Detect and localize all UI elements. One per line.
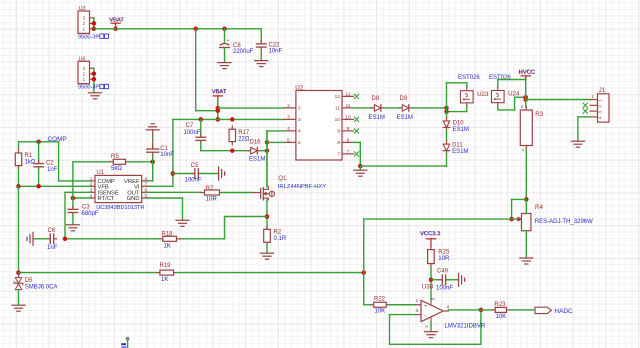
svg-text:5kΩ: 5kΩ (111, 166, 122, 172)
svg-text:100nF: 100nF (436, 286, 453, 292)
svg-text:10: 10 (335, 117, 341, 123)
svg-text:EST026: EST026 (458, 75, 480, 81)
svg-text:0.1R: 0.1R (274, 236, 287, 242)
svg-text:+: + (227, 38, 230, 44)
svg-text:3: 3 (83, 66, 86, 71)
svg-text:3: 3 (83, 16, 86, 21)
svg-text:R22: R22 (374, 297, 386, 303)
svg-text:1: 1 (416, 298, 419, 304)
svg-text:HVCC: HVCC (519, 70, 535, 76)
svg-text:C2: C2 (46, 160, 54, 166)
svg-text:R4: R4 (535, 204, 543, 211)
svg-text:R5: R5 (111, 154, 119, 160)
svg-text:4: 4 (298, 129, 301, 135)
svg-text:SMBJ6.0CA: SMBJ6.0CA (25, 284, 58, 290)
svg-text:100nF: 100nF (185, 177, 202, 183)
svg-text:R17: R17 (238, 130, 250, 136)
svg-text:12: 12 (335, 94, 341, 100)
svg-text:ES1M: ES1M (249, 157, 265, 163)
svg-text:Q1: Q1 (278, 175, 287, 182)
svg-text:C8: C8 (233, 43, 241, 49)
svg-text:1nF: 1nF (47, 245, 58, 251)
svg-text:10R: 10R (206, 197, 218, 203)
svg-text:5: 5 (287, 137, 290, 143)
svg-text:R7: R7 (206, 186, 214, 192)
svg-text:ES1M: ES1M (453, 127, 469, 133)
svg-text:D10: D10 (453, 121, 465, 127)
svg-text:RES-ADJ-TH_3296W: RES-ADJ-TH_3296W (535, 219, 593, 225)
svg-text:2: 2 (287, 103, 290, 109)
svg-text:R25: R25 (438, 249, 450, 255)
svg-text:U38: U38 (422, 283, 434, 290)
svg-text:100nF: 100nF (184, 130, 201, 136)
svg-text:11: 11 (335, 106, 340, 112)
svg-text:12: 12 (345, 91, 351, 97)
svg-text:U1: U1 (96, 170, 104, 176)
svg-text:2200uF: 2200uF (233, 49, 254, 55)
svg-text:D11: D11 (452, 143, 463, 149)
svg-text:9: 9 (337, 129, 340, 135)
svg-text:22Ω: 22Ω (238, 136, 250, 142)
svg-text:11: 11 (346, 103, 351, 109)
svg-text:C3: C3 (82, 204, 90, 210)
svg-text:10: 10 (345, 114, 351, 120)
svg-text:1K: 1K (164, 244, 171, 250)
svg-text:VBAT: VBAT (109, 17, 124, 23)
svg-text:UC3843BD1013TR: UC3843BD1013TR (96, 205, 144, 211)
svg-text:1K: 1K (161, 277, 168, 283)
svg-text:R19: R19 (160, 263, 172, 269)
svg-text:C5: C5 (191, 163, 199, 169)
svg-text:HADC: HADC (555, 308, 573, 315)
svg-text:C6: C6 (48, 228, 56, 234)
svg-text:+: + (424, 303, 427, 309)
svg-text:9: 9 (347, 126, 350, 132)
svg-text:7: 7 (144, 182, 147, 188)
svg-text:4: 4 (287, 126, 290, 132)
svg-text:10nF: 10nF (269, 48, 283, 54)
svg-text:D16: D16 (250, 139, 262, 145)
svg-text:R3: R3 (535, 111, 543, 118)
svg-text:1: 1 (83, 27, 86, 32)
svg-text:U23: U23 (477, 91, 489, 98)
svg-text:D9: D9 (400, 96, 408, 102)
svg-text:1kΩ: 1kΩ (25, 159, 36, 165)
svg-text:680pF: 680pF (82, 211, 99, 217)
svg-text:ES1M: ES1M (369, 115, 385, 121)
svg-text:VCC3.3: VCC3.3 (420, 231, 440, 237)
svg-text:R1: R1 (25, 153, 33, 159)
svg-text:U6: U6 (79, 57, 86, 63)
svg-text:8: 8 (347, 137, 350, 143)
svg-text:10R: 10R (438, 256, 450, 262)
svg-text:1nF: 1nF (47, 167, 58, 173)
svg-text:3: 3 (298, 117, 301, 123)
svg-text:2: 2 (298, 106, 301, 112)
svg-text:GND: GND (127, 196, 140, 202)
svg-text:U2: U2 (295, 84, 303, 91)
svg-text:10K: 10K (375, 309, 386, 315)
svg-text:R18: R18 (162, 231, 174, 237)
svg-text:10nF: 10nF (160, 152, 174, 158)
svg-text:IRLZ44NPBF-HXY: IRLZ44NPBF-HXY (278, 184, 326, 190)
svg-text:2: 2 (83, 21, 86, 26)
svg-text:ES1M: ES1M (397, 115, 413, 121)
svg-text:-: - (424, 313, 426, 319)
svg-text:2: 2 (83, 72, 86, 77)
svg-text:D5: D5 (25, 278, 33, 284)
svg-text:C7: C7 (186, 123, 194, 129)
svg-text:R23: R23 (495, 302, 507, 308)
svg-text:LMV321IDBVR: LMV321IDBVR (445, 323, 486, 329)
svg-text:9500-3P: 9500-3P (78, 85, 99, 91)
svg-text:3: 3 (416, 308, 419, 314)
svg-text:D8: D8 (372, 96, 380, 102)
svg-text:ES1M: ES1M (452, 149, 468, 155)
svg-text:3: 3 (287, 114, 290, 120)
svg-text:VBAT: VBAT (212, 89, 227, 95)
svg-text:J1: J1 (599, 87, 606, 94)
svg-text:C49: C49 (437, 268, 449, 274)
svg-text:5: 5 (298, 140, 301, 146)
svg-text:R2: R2 (274, 229, 282, 235)
svg-text:1: 1 (83, 77, 86, 82)
svg-text:9500-3P: 9500-3P (78, 34, 99, 40)
svg-text:8: 8 (337, 140, 340, 146)
svg-text:U3: U3 (79, 6, 86, 12)
svg-text:10K: 10K (496, 314, 507, 320)
svg-text:RT/CT: RT/CT (98, 196, 115, 202)
svg-text:7: 7 (337, 152, 340, 158)
svg-text:7: 7 (347, 149, 350, 155)
